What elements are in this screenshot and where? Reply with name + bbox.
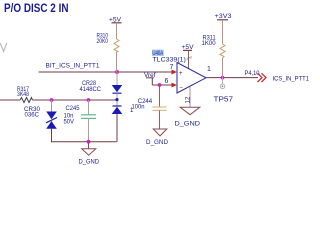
svg-text:BIT_ICS_IN_PTT1: BIT_ICS_IN_PTT1 [46, 63, 100, 70]
svg-text:+5V: +5V [182, 44, 195, 51]
svg-text:C245: C245 [66, 105, 80, 112]
capacitor C244 [132, 85, 167, 129]
diode CR28 dual common-cathode [80, 72, 135, 142]
ground D_GND under op-amp [175, 107, 201, 127]
capacitor C245 [64, 100, 97, 142]
wire BIT_ICS_IN_PTT1 horizontal [39, 71, 173, 73]
wire lower-left net [0, 99, 20, 101]
diode CR30 (bidirectional suppressor) [24, 100, 57, 142]
svg-text:D_GND: D_GND [79, 159, 100, 166]
resistor R310 [97, 33, 120, 72]
svg-text:ICS_IN_PTT1: ICS_IN_PTT1 [273, 75, 310, 82]
no-connect squiggle [187, 56, 191, 60]
junction node rail/C245 [87, 140, 91, 144]
svg-text:−: − [179, 86, 183, 92]
resistor R311 [202, 34, 226, 77]
wire bottom rail [51, 141, 117, 143]
stray V mark left edge [0, 43, 7, 52]
junction node CR30 top [50, 98, 54, 102]
wire Vref to pin 6 [152, 84, 172, 86]
svg-text:4148CC: 4148CC [80, 86, 102, 93]
resistor R317 [17, 86, 33, 103]
junction node C244 top [158, 83, 162, 87]
power +3V3 [215, 13, 233, 44]
ground D_GND under C244 [146, 129, 168, 146]
svg-text:50V: 50V [64, 119, 75, 126]
svg-text:P/O DISC 2 IN: P/O DISC 2 IN [4, 3, 69, 15]
svg-text:6: 6 [165, 78, 169, 85]
junction node output [221, 76, 225, 80]
svg-text:100n: 100n [132, 103, 145, 110]
svg-text:1: 1 [207, 66, 211, 73]
svg-text:3K48: 3K48 [17, 91, 29, 98]
power +5V at op-amp [182, 44, 195, 69]
svg-text:+3V3: +3V3 [215, 13, 233, 20]
test point TP57 [214, 78, 234, 104]
junction node at R310/CR28 [115, 70, 119, 74]
svg-text:20K0: 20K0 [97, 38, 109, 45]
svg-text:TP57: TP57 [214, 97, 234, 104]
op-amp U40A labels [152, 50, 191, 64]
svg-text:+: + [179, 71, 183, 77]
svg-text:D_GND: D_GND [175, 120, 201, 127]
junction node C245 top [87, 98, 91, 102]
op-amp U40A triangle [177, 63, 206, 94]
port P4,10 chevrons [245, 71, 310, 82]
pin 12 [184, 87, 191, 107]
svg-text:D_GND: D_GND [146, 139, 168, 146]
svg-text:TLC339(1): TLC339(1) [152, 57, 186, 64]
power +5V at R310 [109, 17, 122, 40]
ground D_GND bottom rail [79, 142, 100, 166]
net label Vref [144, 72, 156, 85]
svg-text:036C: 036C [25, 111, 40, 118]
svg-text:1K00: 1K00 [202, 40, 217, 47]
